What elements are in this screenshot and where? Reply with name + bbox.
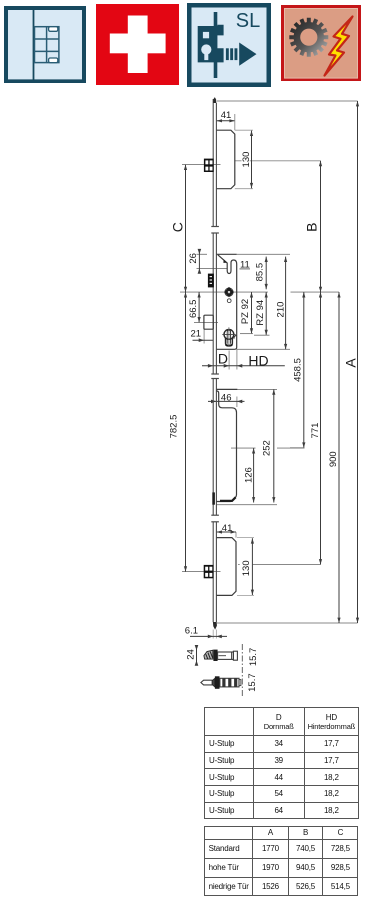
wire: leader for 11 (240, 268, 251, 270)
wire: bar segment 2 (212, 233, 214, 374)
svg-text:11: 11 (240, 259, 250, 270)
svg-text:66.5: 66.5 (188, 300, 199, 319)
hook tip on bar (212, 492, 215, 504)
dim 252 (273, 389, 275, 502)
dim 21 (horizontal, arrow at bolt edge) (193, 339, 214, 341)
svg-text:130: 130 (241, 560, 252, 576)
svg-text:900: 900 (328, 451, 339, 467)
svg-text:15.7: 15.7 (248, 648, 259, 667)
wire: slot reference left (197, 267, 228, 269)
icon 3: SL lock pictogram (187, 3, 271, 87)
wire: top tip reference to A (217, 100, 358, 102)
svg-text:85.5: 85.5 (255, 263, 266, 282)
svg-text:D: D (218, 351, 228, 367)
dim 458.5 (303, 292, 305, 448)
wire: middle housing top extension (237, 388, 277, 390)
svg-text:126: 126 (243, 467, 254, 483)
keeper tab top (49, 26, 58, 31)
case top edge (217, 253, 237, 255)
table: A B C door sizes (204, 826, 359, 897)
wire: 21 extension (203, 329, 205, 343)
dim PZ 92 (251, 292, 253, 334)
profile cylinder (224, 330, 234, 340)
bottom keeper block (204, 565, 214, 578)
wire: bottom keeper centerline (182, 571, 221, 573)
case outline with hook slot and right edge (217, 255, 237, 349)
svg-text:21: 21 (191, 329, 202, 340)
wire: hub centerline (180, 291, 268, 293)
svg-text:C: C (170, 222, 186, 232)
dim 26 (outside arrows) (198, 250, 200, 274)
dim C (185, 165, 187, 293)
latch bolt (204, 315, 213, 329)
wire: bar segment 1 (213, 99, 216, 622)
stamp on faceplate (208, 274, 214, 288)
gear (289, 17, 328, 56)
dim 85.5 (265, 257, 267, 290)
svg-text:B: B (304, 223, 320, 232)
svg-text:6.1: 6.1 (185, 626, 198, 637)
dim 900 (338, 292, 340, 623)
svg-text:PZ 92: PZ 92 (240, 299, 251, 324)
svg-text:RZ 94: RZ 94 (255, 300, 266, 326)
icon 1: lock faceplate pictogram (4, 6, 86, 83)
follower hub (225, 288, 233, 296)
dim 126 (253, 448, 255, 502)
wire: bar segment 4 (212, 522, 214, 622)
wire: cylinder center extension down (228, 351, 230, 370)
svg-text:24: 24 (186, 649, 197, 660)
dim 24 (outside arrows) (196, 646, 198, 666)
svg-text:15.7: 15.7 (247, 673, 258, 692)
wire: bar end faint continuation (212, 630, 214, 639)
wire: bottom 41 extension (235, 532, 237, 538)
dim RZ 94 (265, 292, 267, 335)
table: Dornmass / Hinterdornmass (204, 707, 359, 819)
svg-text:782.5: 782.5 (168, 415, 179, 439)
wire: case top extension right (237, 253, 290, 255)
square hole (203, 31, 209, 37)
wire: case bottom extension (237, 348, 290, 350)
wire: bottom housing edge extensions for 130 (237, 537, 254, 539)
dim 41 bottom (217, 531, 236, 533)
wire: case top extension left (197, 253, 208, 255)
keeper tab bottom (49, 58, 58, 63)
hook step (thick) (220, 497, 236, 501)
dim 130 bottom (251, 538, 253, 595)
wire: latch bolt centerline (194, 321, 218, 323)
dim 46 (outside arrows) (208, 400, 245, 402)
dim 41 top (217, 120, 235, 122)
svg-text:A: A (342, 358, 358, 368)
wire: top keeper centerline (182, 164, 221, 166)
middle housing top edge (217, 388, 238, 390)
bar top tip (213, 97, 216, 103)
svg-text:41: 41 (221, 110, 232, 121)
three bars (226, 48, 229, 60)
lock body (198, 24, 224, 62)
svg-text:46: 46 (221, 392, 232, 403)
wire: middle housing bottom extension (216, 504, 277, 506)
arrow (239, 42, 256, 65)
icon 4: gear + lightning pictogram (281, 5, 361, 82)
svg-text:130: 130 (241, 152, 252, 168)
svg-text:458.5: 458.5 (292, 358, 303, 382)
svg-text:HD: HD (248, 353, 268, 369)
svg-text:252: 252 (262, 440, 273, 456)
grid of lock cases (35, 26, 59, 62)
dim 210 (285, 257, 287, 350)
dim A (357, 101, 359, 623)
faceplate line (214, 12, 218, 78)
wire: top housing edge extensions for 130 (235, 129, 253, 131)
dim D / HD line (202, 365, 285, 367)
wire: bottom tip reference to A (217, 622, 358, 624)
wire: bar segment 3 (212, 379, 214, 516)
dim 130 top (251, 131, 253, 189)
keyhole (201, 44, 211, 54)
hook bolt tip barb (223, 259, 227, 263)
svg-text:771: 771 (310, 423, 321, 439)
dim 782.5 (185, 292, 187, 571)
lightning bolt (324, 16, 352, 75)
dim B (320, 161, 322, 292)
dim 771 (320, 292, 322, 564)
wire: dash-dot reference line for 15.7 (241, 644, 243, 697)
bar break caps (211, 227, 219, 522)
top keeper block (204, 159, 214, 172)
wire: bottom latch centerline to 771 (238, 564, 240, 566)
svg-text:41: 41 (222, 523, 233, 534)
cylinder notch detail (234, 335, 237, 338)
wire: case back edge extension down (236, 349, 238, 369)
dim 6.1 (outside arrows) (190, 635, 227, 637)
svg-text:210: 210 (275, 302, 286, 318)
faceplate line (33, 10, 35, 80)
bar bottom tip (213, 622, 217, 630)
small screw hole (227, 299, 231, 303)
wire: middle hook centerline (231, 447, 256, 449)
icon 2: swiss cross (96, 4, 179, 85)
dim 66.5 (198, 292, 200, 322)
svg-text:26: 26 (188, 253, 199, 264)
wire: top latch centerline to B (235, 160, 242, 162)
wire: 46 extension (236, 397, 238, 408)
